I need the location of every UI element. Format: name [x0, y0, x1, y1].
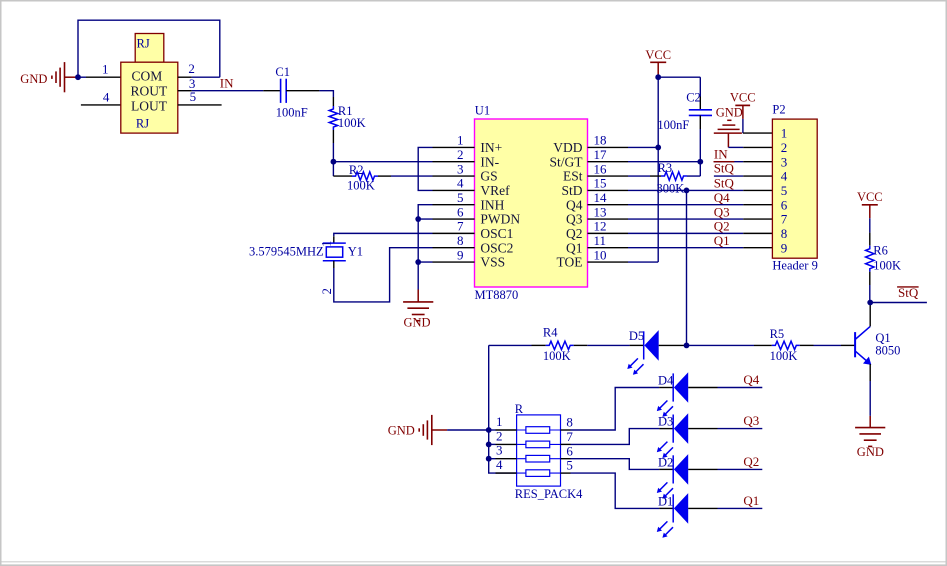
pin 15 of U1 (StD): [588, 189, 629, 191]
connector P2 Header 9: [772, 103, 817, 273]
svg-text:R6: R6: [873, 244, 888, 258]
svg-text:9: 9: [781, 240, 788, 255]
wire: [699, 129, 701, 162]
svg-text:Q4: Q4: [743, 372, 759, 387]
wire: [718, 387, 763, 389]
pin 18 of U1 (VDD): [588, 146, 629, 148]
svg-text:GND: GND: [404, 316, 431, 330]
svg-text:C2: C2: [686, 91, 701, 105]
svg-text:7: 7: [781, 212, 788, 227]
pin 13 of U1 (Q3): [588, 218, 629, 220]
svg-text:5: 5: [781, 183, 788, 198]
wire: [571, 473, 660, 508]
pin 3 of P2: [743, 161, 772, 163]
node: PWDN junction: [415, 216, 421, 222]
svg-text:D1: D1: [658, 494, 673, 508]
wire: [489, 443, 496, 445]
svg-text:D4: D4: [658, 374, 674, 388]
node: RJ pin1/GND junction: [75, 74, 81, 80]
LED D5: [627, 329, 686, 375]
svg-text:2: 2: [496, 428, 503, 443]
pin 7 of P2: [743, 218, 772, 220]
svg-text:6: 6: [457, 204, 464, 219]
svg-text:Y1: Y1: [348, 245, 363, 259]
svg-text:IN: IN: [220, 75, 234, 90]
svg-text:2: 2: [457, 147, 464, 162]
node: St/GT, C2, R3 junction: [697, 159, 703, 165]
wire: [869, 285, 871, 303]
svg-text:MT8870: MT8870: [475, 288, 519, 302]
wire: [319, 91, 333, 97]
svg-text:100K: 100K: [338, 116, 366, 130]
svg-text:5: 5: [190, 89, 197, 104]
LED D1: [657, 493, 718, 538]
svg-text:2: 2: [320, 288, 334, 294]
wire: [628, 218, 743, 220]
wire: [571, 388, 660, 431]
svg-text:VSS: VSS: [480, 255, 505, 270]
wire: [332, 143, 334, 162]
wire: base pin: [841, 344, 855, 346]
wire: [489, 458, 496, 460]
node: pack pin 3 junction: [486, 456, 492, 462]
svg-text:17: 17: [594, 147, 608, 162]
resistor R3: [628, 161, 700, 195]
pin 5 of R: [561, 472, 571, 474]
wire: [869, 218, 871, 232]
pin 1 of U1 (IN+): [433, 146, 475, 148]
svg-text:Q3: Q3: [714, 204, 730, 219]
svg-text:11: 11: [594, 233, 607, 248]
svg-text:6: 6: [781, 197, 788, 212]
capacitor C2: [657, 77, 712, 132]
resistor R2: [333, 163, 391, 192]
svg-text:3: 3: [781, 154, 788, 169]
svg-text:1: 1: [496, 414, 503, 429]
svg-text:Q2: Q2: [743, 454, 759, 469]
pin 16 of U1 (ESt): [588, 175, 629, 177]
svg-text:PWDN: PWDN: [480, 212, 520, 227]
ground: [403, 290, 433, 330]
svg-text:U1: U1: [475, 104, 490, 118]
svg-text:4: 4: [103, 89, 110, 104]
pin 5 of P2: [743, 189, 772, 191]
ground at P2: [714, 106, 743, 148]
crystal Y1: [249, 236, 363, 294]
svg-text:4: 4: [457, 176, 464, 191]
svg-text:10: 10: [594, 247, 607, 262]
svg-text:5: 5: [566, 458, 573, 473]
svg-text:TOE: TOE: [557, 255, 583, 270]
svg-text:VRef: VRef: [480, 183, 510, 198]
svg-text:D3: D3: [658, 415, 673, 429]
svg-text:8: 8: [781, 226, 788, 241]
svg-text:Q3: Q3: [743, 413, 759, 428]
LED D2: [657, 454, 718, 499]
wire: [628, 146, 658, 148]
svg-text:VCC: VCC: [730, 91, 756, 105]
svg-text:1: 1: [102, 62, 109, 77]
svg-text:4: 4: [496, 457, 503, 472]
svg-text:14: 14: [594, 190, 608, 205]
svg-text:100K: 100K: [543, 349, 571, 363]
svg-text:18: 18: [594, 133, 607, 148]
wire: collector: [869, 303, 871, 327]
pin 1 of P2: [743, 132, 773, 134]
svg-text:IN-: IN-: [480, 154, 499, 169]
wire: [571, 459, 660, 470]
wire: [447, 429, 489, 431]
node: StD/D5/R5 junction: [684, 343, 690, 349]
wire: [489, 344, 532, 346]
op-amp U1 MT8870: [475, 104, 588, 303]
pin 3 of R: [496, 458, 517, 460]
wire: [814, 344, 842, 346]
resistor R5: [754, 327, 814, 363]
svg-text:INH: INH: [480, 197, 504, 212]
svg-text:3.579545MHZ: 3.579545MHZ: [249, 245, 324, 259]
pin 12 of U1 (Q2): [588, 232, 629, 234]
resistor R1: [329, 97, 365, 143]
transistor Q1 8050: [855, 326, 900, 365]
node: pack pin 1 junction: [486, 427, 492, 433]
power VCC at P2: [730, 91, 756, 119]
svg-text:Q1: Q1: [566, 240, 583, 255]
svg-text:1: 1: [781, 126, 788, 141]
wire: [334, 248, 433, 302]
svg-text:100K: 100K: [347, 179, 375, 193]
wire: emitter: [869, 364, 871, 381]
svg-text:7: 7: [566, 429, 573, 444]
wire: [714, 161, 743, 163]
svg-text:8: 8: [566, 415, 573, 430]
pin 9 of P2: [743, 247, 772, 249]
svg-text:Q2: Q2: [566, 226, 583, 241]
wire: [76, 76, 87, 78]
power VCC: [857, 190, 883, 218]
wire: INH/PWDN/VSS to ground: [418, 205, 432, 290]
svg-text:D2: D2: [658, 455, 673, 469]
wire: ground bus to resistor pack: [489, 345, 517, 473]
pin 8 of U1 (OSC2): [433, 247, 475, 249]
svg-text:GND: GND: [20, 72, 47, 86]
pin 11 of U1 (Q1): [588, 247, 629, 249]
svg-text:Q1: Q1: [714, 233, 730, 248]
svg-text:COM: COM: [132, 69, 163, 84]
node: pack pin 2 junction: [486, 442, 492, 448]
svg-text:9: 9: [457, 247, 464, 262]
pin 2 of P2: [743, 146, 772, 148]
pin 7 of U1 (OSC1): [433, 232, 475, 234]
svg-text:16: 16: [594, 161, 608, 176]
wire: St/GT: [628, 161, 700, 163]
wire: [334, 233, 433, 236]
svg-text:Q3: Q3: [566, 212, 583, 227]
svg-text:4: 4: [781, 169, 788, 184]
svg-text:VCC: VCC: [857, 190, 883, 204]
wire: [628, 247, 743, 249]
svg-text:StQ: StQ: [714, 161, 735, 176]
node: StD branch junction: [684, 187, 690, 193]
wire: [192, 90, 263, 92]
pin 2 of U1 (IN-): [433, 161, 475, 163]
wire: [687, 344, 755, 346]
svg-text:GS: GS: [480, 169, 497, 184]
wire: [332, 162, 334, 176]
svg-text:StD: StD: [561, 183, 582, 198]
wire: [742, 119, 744, 133]
svg-text:100K: 100K: [873, 259, 901, 273]
node: collector/R6 junction: [867, 300, 873, 306]
wire: [699, 162, 701, 176]
pin 7 of R: [561, 443, 571, 445]
power VCC: [645, 48, 671, 75]
svg-text:Q1: Q1: [743, 493, 759, 508]
pin 4 of R: [496, 472, 517, 474]
pin 3 of U1 (GS): [433, 175, 475, 177]
svg-text:8: 8: [457, 233, 464, 248]
svg-text:3: 3: [496, 443, 503, 458]
wire: [658, 76, 700, 78]
pin 6 of R: [561, 458, 571, 460]
svg-text:100nF: 100nF: [657, 118, 689, 132]
pin 2 of R: [496, 443, 517, 445]
pin 1 of RJ: [86, 76, 121, 78]
pin 4 of RJ: [81, 104, 121, 106]
svg-text:VDD: VDD: [553, 140, 582, 155]
resistor pack R RES_PACK4: [515, 402, 583, 501]
pin 2 of RJ: [178, 76, 192, 78]
pin 9 of U1 (VSS): [433, 261, 475, 263]
svg-text:100K: 100K: [770, 349, 798, 363]
svg-text:8050: 8050: [875, 344, 900, 358]
svg-text:C1: C1: [275, 65, 290, 79]
pin 3 of RJ: [178, 90, 192, 92]
resistor R4: [532, 326, 588, 363]
svg-text:Q4: Q4: [566, 197, 583, 212]
pin 1 of R: [496, 429, 517, 431]
pin 4 of U1 (VRef): [433, 189, 475, 191]
wire: [628, 204, 743, 206]
svg-text:13: 13: [594, 204, 607, 219]
wire: [333, 161, 432, 163]
svg-text:ESt: ESt: [563, 169, 583, 184]
svg-text:100nF: 100nF: [276, 106, 308, 120]
svg-text:OSC1: OSC1: [480, 226, 513, 241]
svg-text:2: 2: [188, 61, 195, 76]
wire: [728, 146, 743, 148]
svg-text:1: 1: [457, 133, 464, 148]
wire: [686, 190, 688, 345]
svg-text:IN: IN: [714, 146, 728, 161]
wire: [718, 428, 763, 430]
node: VSS junction: [415, 259, 421, 265]
svg-text:D5: D5: [629, 329, 644, 343]
wire: [571, 429, 660, 445]
svg-text:R: R: [515, 402, 524, 416]
wire: [718, 507, 763, 509]
svg-text:15: 15: [594, 176, 607, 191]
net label StQ (active low): [897, 285, 919, 300]
svg-text:GND: GND: [716, 106, 743, 120]
pin 10 of U1 (TOE): [588, 261, 629, 263]
ground: [20, 62, 75, 92]
wire: [78, 20, 220, 77]
pin 6 of P2: [743, 204, 772, 206]
svg-text:6: 6: [566, 443, 573, 458]
LED D3: [657, 413, 718, 458]
pin 5 of U1 (INH): [433, 204, 475, 206]
wire: [628, 189, 743, 191]
pin 4 of P2: [743, 175, 772, 177]
svg-text:OSC2: OSC2: [480, 240, 513, 255]
svg-text:GND: GND: [388, 424, 415, 438]
svg-text:GND: GND: [857, 445, 884, 459]
svg-text:300K: 300K: [657, 181, 685, 195]
ground: [855, 416, 885, 459]
svg-text:R2: R2: [349, 163, 364, 177]
svg-text:ROUT: ROUT: [131, 84, 169, 99]
svg-text:3: 3: [457, 161, 464, 176]
wire: [391, 175, 433, 177]
wire: [489, 429, 496, 431]
wire: [628, 261, 658, 263]
ground: [388, 415, 447, 445]
svg-text:12: 12: [594, 219, 607, 234]
pin 17 of U1 (St/GT): [588, 161, 629, 163]
svg-text:RES_PACK4: RES_PACK4: [515, 487, 583, 501]
svg-text:R3: R3: [658, 161, 673, 175]
svg-text:LOUT: LOUT: [131, 98, 168, 113]
svg-text:Q4: Q4: [714, 190, 730, 205]
svg-text:5: 5: [457, 190, 464, 205]
svg-text:Header 9: Header 9: [772, 259, 817, 273]
svg-text:St/GT: St/GT: [549, 154, 583, 169]
svg-text:VCC: VCC: [645, 48, 671, 62]
svg-text:Q2: Q2: [714, 219, 730, 234]
svg-text:2: 2: [781, 140, 788, 155]
resistor R6: [866, 233, 901, 285]
connector RJ: [121, 34, 178, 134]
pin 8 of P2: [743, 232, 772, 234]
svg-text:RJ: RJ: [136, 116, 149, 130]
net label StQ (active low): [714, 161, 735, 176]
pin 6 of U1 (PWDN): [433, 218, 475, 220]
node: R1/R2/IN- junction: [331, 159, 337, 165]
node: VCC junction: [655, 74, 661, 80]
pin 14 of U1 (Q4): [588, 204, 629, 206]
svg-text:IN+: IN+: [480, 140, 502, 155]
wire: [714, 175, 743, 177]
wire: VCC to VDD and TOE: [657, 77, 659, 262]
wire: IN+ to VRef: [418, 147, 432, 190]
wire: [587, 344, 629, 346]
pin 5 of RJ: [178, 104, 222, 106]
svg-text:7: 7: [457, 219, 464, 234]
svg-text:R4: R4: [543, 326, 558, 340]
wire: [718, 468, 763, 470]
pin 8 of R: [561, 429, 571, 431]
wire: [870, 302, 927, 304]
LED D4: [657, 372, 718, 417]
wire: [192, 76, 220, 78]
node: VDD junction: [655, 145, 661, 151]
svg-text:StQ: StQ: [714, 176, 735, 191]
wire: [628, 232, 743, 234]
capacitor C1: [263, 65, 319, 119]
svg-text:P2: P2: [772, 103, 785, 117]
svg-text:RJ: RJ: [137, 37, 150, 51]
svg-text:R5: R5: [770, 327, 785, 341]
